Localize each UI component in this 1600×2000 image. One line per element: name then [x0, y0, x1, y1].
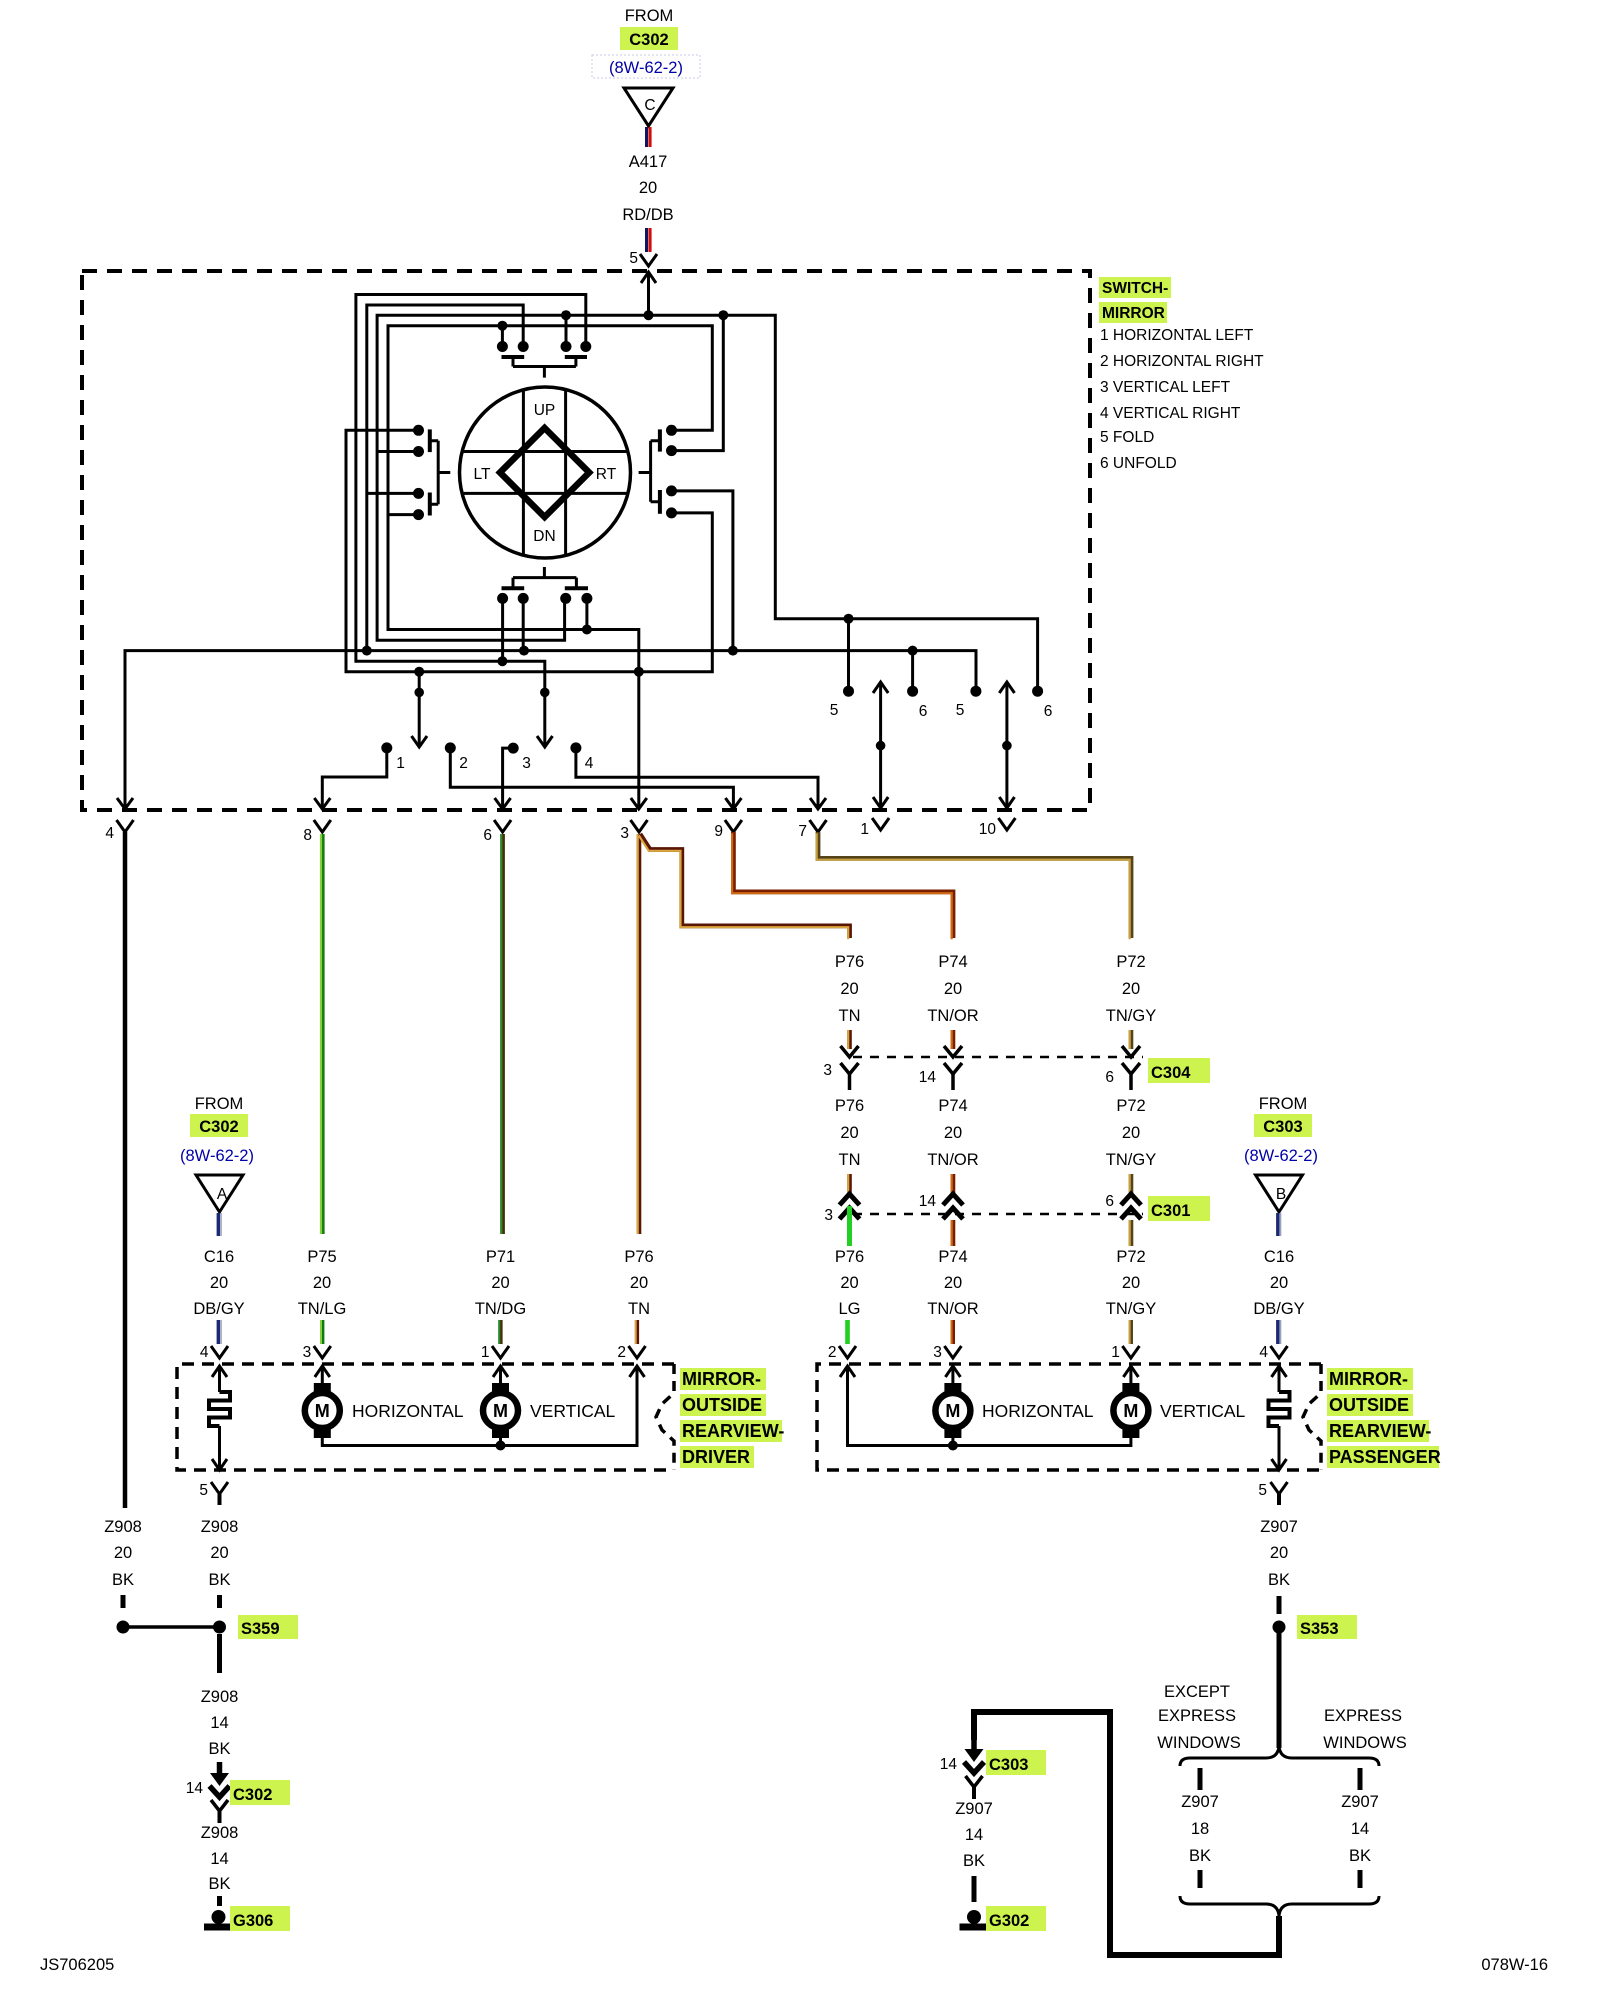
switch output contact 4 dot: [570, 742, 581, 753]
svg-text:4: 4: [105, 825, 114, 842]
svg-text:TN/OR: TN/OR: [927, 1300, 978, 1318]
C304 dashed connector line: [853, 1056, 1143, 1059]
wire nest: right contact d1 / v388 / pin3 run: [388, 326, 712, 808]
wire top contact 1 stub: [501, 326, 504, 347]
wire stub above ground G306: [217, 1896, 222, 1906]
pin 3 connector chevron (mirror box at x=322.3): [314, 1346, 331, 1358]
connector C304 halves at P76: [841, 1046, 859, 1090]
passenger pin 2 entry arrow and common bus: [840, 1366, 1131, 1446]
svg-text:5 FOLD: 5 FOLD: [1100, 429, 1154, 446]
svg-text:BK: BK: [208, 1571, 230, 1589]
wire P74 segment below C301: [952, 1220, 953, 1246]
wire horizontal motor drop to bus (passenger): [951, 1438, 954, 1446]
svg-text:3: 3: [303, 1344, 312, 1361]
connector C304 halves at P74: [944, 1046, 962, 1090]
splice dot left: [117, 1621, 130, 1634]
svg-text:TN/GY: TN/GY: [1106, 1300, 1156, 1318]
label OUTSIDE (passenger): [1327, 1394, 1413, 1416]
wire P76 LG segment below C301: [847, 1206, 852, 1246]
svg-text:Z907: Z907: [1260, 1518, 1298, 1536]
ground G306 symbol: [204, 1910, 233, 1927]
switch top contact assembly dots: [497, 341, 591, 352]
label MIRROR (green highlight): [1099, 302, 1167, 323]
wire A417 RD/DB upper stub: [647, 127, 651, 147]
pin 1 connector chevron (mirror box at x=1130.9): [1122, 1346, 1139, 1358]
pin 3 connector chevron (mirror box at x=952.9): [944, 1346, 961, 1358]
switch right movable bar upper: [658, 429, 662, 451]
svg-text:TN/LG: TN/LG: [298, 1300, 347, 1318]
wire left contact d4 stub: [388, 513, 419, 516]
merge brace: [1180, 1896, 1379, 1916]
svg-text:TN/OR: TN/OR: [927, 1151, 978, 1169]
pin 1 connector chevron (mirror box at x=500.5): [492, 1346, 509, 1358]
svg-text:20: 20: [1122, 1274, 1140, 1292]
svg-text:P72: P72: [1116, 953, 1145, 971]
svg-text:20: 20: [1122, 1124, 1140, 1142]
C301 dashed connector line: [853, 1213, 1143, 1216]
wire right contact d3 drop to pin4 bus: [672, 491, 733, 651]
splice dot S353: [1273, 1621, 1286, 1634]
junction dot (848.5,618.7): [844, 614, 854, 624]
svg-text:BK: BK: [1349, 1847, 1371, 1865]
switch bottom movable bar left: [502, 586, 525, 590]
svg-text:P74: P74: [938, 1248, 967, 1266]
switch left actuator bracket: [430, 441, 451, 505]
svg-text:5: 5: [629, 250, 638, 267]
svg-text:14: 14: [919, 1193, 937, 1210]
svg-text:14: 14: [1351, 1820, 1369, 1838]
svg-text:14: 14: [940, 1756, 958, 1773]
wire Z908 BK from pin 4 down: [123, 832, 128, 1508]
svg-text:(8W-62-2): (8W-62-2): [609, 59, 683, 77]
wire contact 2 to pin 9: [450, 751, 733, 808]
wire contact 1 to pin 8: [322, 751, 387, 808]
wire pin 4 bus y650.6: [125, 651, 976, 808]
svg-text:14: 14: [919, 1069, 937, 1086]
pin 6 connector chevron: [494, 820, 511, 832]
switch left movable bar lower: [428, 493, 432, 516]
pin 4 connector chevron (mirror box at x=219.5): [211, 1346, 228, 1358]
motor M HORIZONTAL (x=322.3): [305, 1383, 340, 1438]
wire bottom contact 4 stub to pin3 line: [585, 598, 588, 629]
svg-text:5: 5: [830, 702, 839, 719]
svg-text:REARVIEW-: REARVIEW-: [1329, 1421, 1431, 1441]
svg-text:MIRROR-: MIRROR-: [1329, 1369, 1408, 1389]
junction dot (419.2,671.7): [414, 667, 424, 677]
svg-text:TN: TN: [628, 1300, 650, 1318]
ground name G306 (green highlight): [230, 1906, 290, 1931]
label REARVIEW- (driver): [680, 1420, 784, 1442]
paddle diamond: [500, 428, 589, 517]
svg-text:14: 14: [210, 1850, 228, 1868]
wire P72 segment above C301: [1130, 1174, 1131, 1196]
fold pole double arrow pin 1: [873, 682, 888, 808]
wire P72 segment below C301: [1130, 1220, 1131, 1246]
wire below S359: [217, 1634, 222, 1673]
svg-text:A: A: [217, 1186, 228, 1203]
connector name C304 (green highlight): [1148, 1058, 1210, 1083]
svg-text:M: M: [315, 1401, 330, 1421]
svg-text:6: 6: [1105, 1193, 1114, 1210]
fold contact dot 5 (left): [843, 686, 854, 697]
splice name S359 (green highlight): [238, 1615, 298, 1639]
svg-text:WINDOWS: WINDOWS: [1323, 1734, 1406, 1752]
svg-text:UP: UP: [534, 402, 556, 419]
junction dot driver bus: [496, 1441, 506, 1451]
svg-text:LT: LT: [474, 466, 491, 483]
svg-text:VERTICAL: VERTICAL: [1160, 1401, 1246, 1421]
svg-text:TN/OR: TN/OR: [927, 1007, 978, 1025]
pole arrow contacts 1/2: [412, 672, 428, 747]
pin 8 connector chevron: [314, 820, 331, 832]
svg-text:4: 4: [585, 755, 594, 772]
svg-text:18: 18: [1191, 1820, 1209, 1838]
svg-text:C302: C302: [199, 1118, 238, 1136]
svg-text:9: 9: [714, 823, 723, 840]
switch left contact assembly dots: [413, 425, 424, 520]
svg-text:PASSENGER: PASSENGER: [1329, 1447, 1441, 1467]
svg-text:3: 3: [933, 1344, 942, 1361]
svg-text:SWITCH-: SWITCH-: [1102, 280, 1168, 297]
svg-text:P76: P76: [835, 1248, 864, 1266]
svg-text:3 VERTICAL LEFT: 3 VERTICAL LEFT: [1100, 379, 1231, 396]
junction dot (502.4,325.7): [497, 321, 507, 331]
pin 3 connector chevron: [631, 820, 648, 832]
junction dot (586.9,629.5): [582, 625, 592, 635]
fold contact dot 6 (left): [907, 686, 918, 697]
wire stub except-express branch: [1198, 1768, 1203, 1790]
junction dot (524,650.6): [519, 646, 529, 656]
svg-text:Z908: Z908: [104, 1518, 142, 1536]
wire P76 segment above C301: [848, 1174, 849, 1196]
svg-text:VERTICAL: VERTICAL: [530, 1401, 616, 1421]
svg-text:4: 4: [1259, 1344, 1268, 1361]
wire P74 segment above C301: [952, 1174, 953, 1196]
junction dot (649.1,315.2) pin5 feed: [644, 310, 654, 320]
svg-text:C: C: [644, 97, 655, 114]
wire C16 DB/GY stub below triangle B: [1278, 1213, 1281, 1236]
svg-text:2: 2: [459, 755, 468, 772]
svg-text:OUTSIDE: OUTSIDE: [682, 1395, 762, 1415]
wire breaker to pin 5 exit (driver): [212, 1426, 227, 1470]
svg-text:20: 20: [840, 980, 858, 998]
wire stub into splice S359 (left): [121, 1595, 126, 1608]
svg-text:Z907: Z907: [1181, 1793, 1219, 1811]
svg-text:RT: RT: [596, 466, 617, 483]
connector C303 inline symbol: [964, 1738, 984, 1799]
wire left contact d3 stub: [367, 492, 419, 495]
svg-text:BK: BK: [112, 1571, 134, 1589]
svg-text:M: M: [945, 1401, 960, 1421]
svg-text:P72: P72: [1116, 1097, 1145, 1115]
svg-text:TN/GY: TN/GY: [1106, 1151, 1156, 1169]
switch right contact assembly dots: [666, 425, 677, 519]
svg-text:C303: C303: [989, 1756, 1028, 1774]
svg-text:BK: BK: [1189, 1847, 1211, 1865]
wire TN/OR stub to passenger pin 3: [952, 1320, 953, 1344]
wire LG stub to passenger pin 2: [845, 1320, 850, 1344]
svg-text:20: 20: [114, 1544, 132, 1562]
svg-text:C302: C302: [629, 31, 668, 49]
switch top actuator bracket: [513, 357, 576, 378]
svg-text:P76: P76: [624, 1248, 653, 1266]
motor M HORIZONTAL (x=952.9): [935, 1383, 970, 1438]
paddle chord horizontal upper: [463, 450, 626, 453]
svg-text:TN/GY: TN/GY: [1106, 1007, 1156, 1025]
splice S359 link wire: [123, 1625, 220, 1629]
svg-text:3: 3: [522, 755, 531, 772]
svg-text:4 VERTICAL RIGHT: 4 VERTICAL RIGHT: [1100, 405, 1241, 422]
wire stub express branch: [1358, 1768, 1363, 1790]
svg-text:DN: DN: [533, 528, 555, 545]
pin 9 connector chevron: [725, 820, 742, 832]
svg-text:6 UNFOLD: 6 UNFOLD: [1100, 455, 1177, 472]
switch top movable bar left: [502, 355, 525, 359]
svg-text:Z907: Z907: [1341, 1793, 1379, 1811]
svg-text:C301: C301: [1151, 1202, 1190, 1220]
svg-text:2: 2: [828, 1344, 837, 1361]
junction dot (566,315.2): [561, 310, 571, 320]
ground name G302 (green highlight): [986, 1906, 1046, 1931]
wire feed line y315 to big right vertical and fold bus: [566, 315, 1038, 691]
svg-text:BK: BK: [208, 1875, 230, 1893]
junction dot (723.3,315.2): [718, 310, 728, 320]
svg-text:EXPRESS: EXPRESS: [1158, 1707, 1236, 1725]
svg-text:20: 20: [1270, 1274, 1288, 1292]
wire A417 RD/DB lower stub: [647, 228, 651, 252]
mirror passenger dashed brace edge: [1303, 1364, 1321, 1470]
switch output contact 2 dot: [445, 742, 456, 753]
label DRIVER (driver): [680, 1446, 754, 1468]
connector name C302 (top, green highlight): [620, 27, 678, 50]
svg-text:P74: P74: [938, 953, 967, 971]
svg-text:Z908: Z908: [201, 1688, 239, 1706]
svg-text:P74: P74: [938, 1097, 967, 1115]
svg-text:C16: C16: [204, 1248, 234, 1266]
wire vertical motor drop to bus (driver): [499, 1438, 502, 1446]
svg-text:S359: S359: [241, 1620, 280, 1638]
switch bottom movable bar right: [565, 586, 588, 590]
wire fold contact drop x912.6: [911, 651, 914, 692]
svg-text:P72: P72: [1116, 1248, 1145, 1266]
split brace: [1180, 1746, 1379, 1766]
svg-text:20: 20: [639, 179, 657, 197]
svg-text:C16: C16: [1264, 1248, 1294, 1266]
svg-text:20: 20: [630, 1274, 648, 1292]
svg-text:20: 20: [944, 980, 962, 998]
svg-text:3: 3: [620, 825, 629, 842]
svg-text:20: 20: [491, 1274, 509, 1292]
junction dot (732.9,650.6): [728, 646, 738, 656]
wire stub into splice S353: [1277, 1596, 1282, 1614]
svg-text:BK: BK: [963, 1852, 985, 1870]
connector C301 chevrons at P72: [1121, 1194, 1141, 1219]
fold contact dot 5 (right): [970, 686, 981, 697]
svg-text:TN/DG: TN/DG: [475, 1300, 526, 1318]
svg-text:5: 5: [199, 1482, 208, 1499]
pin 5 connector chevron: [640, 254, 657, 266]
pole arrow contacts 3/4: [537, 688, 553, 747]
svg-text:C302: C302: [233, 1786, 272, 1804]
svg-text:1: 1: [1111, 1344, 1120, 1361]
svg-text:2 HORIZONTAL RIGHT: 2 HORIZONTAL RIGHT: [1100, 353, 1264, 370]
wire left contact d2 stub: [377, 450, 418, 453]
pin 7 connector chevron: [810, 820, 827, 832]
motor M VERTICAL (x=500.5): [483, 1383, 518, 1438]
svg-text:4: 4: [200, 1344, 209, 1361]
junction dot (912.6,650.6): [908, 646, 918, 656]
connector name C303 (passenger, green highlight): [1254, 1114, 1312, 1137]
svg-text:M: M: [1123, 1401, 1138, 1421]
svg-text:TN: TN: [839, 1151, 861, 1169]
svg-text:Z907: Z907: [955, 1800, 993, 1818]
wire breaker to pin 5 exit (passenger): [1272, 1426, 1287, 1470]
svg-text:6: 6: [483, 827, 492, 844]
off-page connector triangle B: [1256, 1175, 1303, 1212]
label MIRROR- (passenger, green highlight): [1327, 1368, 1413, 1390]
mirror driver dashed box: [177, 1364, 674, 1470]
pin 2 connector chevron (mirror box at x=637): [629, 1346, 646, 1358]
driver pin 3 entry arrow: [315, 1366, 330, 1383]
wire TN/DG stub to driver pin 1: [499, 1320, 500, 1344]
pin 4 connector chevron (mirror box at x=1279): [1271, 1346, 1288, 1358]
switch output contact 3 dot: [508, 743, 519, 754]
wire P72 segment above C304: [1130, 1030, 1131, 1049]
switch bottom actuator bracket: [513, 567, 576, 588]
driver pin 4 entry arrow: [212, 1366, 227, 1392]
svg-text:JS706205: JS706205: [40, 1956, 114, 1974]
pin exit arrowheads at box edge: [117, 798, 826, 809]
junction dot passenger bus: [948, 1441, 958, 1451]
wire stub below right branch: [1358, 1870, 1363, 1888]
svg-text:5: 5: [956, 702, 965, 719]
svg-text:10: 10: [979, 821, 997, 838]
wire P76 TN from pin 3 down (driver vertical): [638, 834, 639, 1234]
svg-text:WINDOWS: WINDOWS: [1157, 1734, 1240, 1752]
svg-text:HORIZONTAL: HORIZONTAL: [982, 1401, 1094, 1421]
driver pin 1 entry arrow: [493, 1366, 508, 1383]
fold contact dot 6 (right): [1032, 686, 1043, 697]
wire bottom contact 1 stub: [501, 598, 504, 661]
svg-text:1: 1: [860, 821, 869, 838]
paddle chord vertical right: [564, 390, 567, 554]
passenger pin 1 entry arrow: [1123, 1366, 1138, 1383]
wire P75 TN/LG from pin 8 down: [321, 834, 322, 1234]
label OUTSIDE (driver): [680, 1394, 766, 1416]
connector C301 chevrons at P74: [943, 1194, 963, 1219]
switch bottom contact assembly dots: [497, 593, 592, 604]
svg-text:DRIVER: DRIVER: [682, 1447, 750, 1467]
svg-text:REARVIEW-: REARVIEW-: [682, 1421, 784, 1441]
svg-text:C303: C303: [1263, 1118, 1302, 1136]
pin 5 connector (passenger mirror): [1271, 1482, 1288, 1505]
driver pin 2 entry arrow and common bus: [322, 1366, 644, 1446]
svg-text:P71: P71: [486, 1248, 515, 1266]
svg-text:20: 20: [840, 1274, 858, 1292]
svg-text:20: 20: [210, 1544, 228, 1562]
svg-text:P75: P75: [307, 1248, 336, 1266]
reference (8W-62-2): [592, 55, 700, 78]
svg-text:20: 20: [210, 1274, 228, 1292]
svg-text:6: 6: [1044, 703, 1053, 720]
wire contact 4 to pin 7: [576, 751, 818, 808]
motor M VERTICAL (x=1130.9): [1113, 1383, 1148, 1438]
label MIRROR- (driver, green highlight): [680, 1368, 766, 1390]
svg-text:G306: G306: [233, 1912, 273, 1930]
svg-text:HORIZONTAL: HORIZONTAL: [352, 1401, 464, 1421]
label PASSENGER (passenger): [1327, 1446, 1441, 1468]
junction dot (366.8,650.6): [362, 646, 372, 656]
svg-text:20: 20: [1122, 980, 1140, 998]
svg-text:Z908: Z908: [201, 1824, 239, 1842]
connector C304 halves at P72: [1122, 1046, 1140, 1090]
svg-text:S353: S353: [1300, 1620, 1339, 1638]
off-page connector triangle C: [624, 88, 673, 126]
label REARVIEW- (passenger): [1327, 1420, 1431, 1442]
svg-text:8: 8: [303, 827, 312, 844]
svg-text:6: 6: [919, 703, 928, 720]
mirror passenger dashed box: [817, 1364, 1321, 1470]
connector name C302 (driver, green highlight): [190, 1114, 248, 1137]
paddle chord horizontal lower: [464, 492, 627, 495]
wire nest: top contact 2 branch (v366.8): [367, 305, 523, 651]
wire TN/LG stub to driver pin 3: [321, 1320, 322, 1344]
svg-text:FROM: FROM: [1259, 1095, 1308, 1113]
pin 5 connector (driver mirror): [211, 1482, 228, 1505]
connector name C302 (green highlight): [230, 1780, 290, 1805]
svg-text:BK: BK: [208, 1740, 230, 1758]
svg-text:B: B: [1276, 1186, 1286, 1203]
svg-text:TN: TN: [839, 1007, 861, 1025]
splice name S353 (green highlight): [1297, 1615, 1357, 1639]
svg-text:(8W-62-2): (8W-62-2): [1244, 1147, 1318, 1165]
wire C16 DB/GY stub below triangle A: [218, 1213, 221, 1236]
wire nest: top contact 4 to outer loop (v355.9) down to pole 3/4 line: [356, 295, 586, 693]
label SWITCH- (green highlight): [1099, 277, 1171, 298]
svg-text:2: 2: [617, 1344, 626, 1361]
svg-text:P76: P76: [835, 953, 864, 971]
wire left contact d1 / v346 / y671.7 / right contact d4 loop: [346, 430, 712, 671]
wire stub below left branch: [1198, 1870, 1203, 1888]
svg-text:C304: C304: [1151, 1064, 1191, 1082]
wire stub above ground G302: [972, 1876, 977, 1902]
svg-text:1: 1: [481, 1344, 490, 1361]
svg-text:M: M: [493, 1401, 508, 1421]
circuit breaker (driver mirror): [209, 1392, 230, 1426]
svg-text:FROM: FROM: [195, 1095, 244, 1113]
pin 10 connector chevron: [998, 818, 1015, 830]
passenger pin 3 entry arrow: [945, 1366, 960, 1383]
ground G302 symbol: [960, 1910, 989, 1927]
connector C302 inline symbol: [210, 1762, 230, 1823]
paddle chord vertical left: [522, 390, 525, 555]
wire contact 3 to pin 6: [503, 748, 514, 808]
svg-text:3: 3: [823, 1062, 832, 1079]
wire pin5 feed into switch with up arrow: [641, 272, 656, 315]
pin 2 connector chevron (mirror box at x=847.5): [839, 1346, 856, 1358]
svg-text:DB/GY: DB/GY: [193, 1300, 244, 1318]
wire P76 TN branch from pin 3 to passenger column: [639, 834, 850, 939]
switch right actuator bracket: [639, 441, 660, 502]
svg-text:5: 5: [1258, 1482, 1267, 1499]
wire P74 segment above C304: [952, 1030, 953, 1049]
fold pole double arrow pin 10: [999, 682, 1014, 808]
svg-text:P76: P76: [835, 1097, 864, 1115]
svg-text:1 HORIZONTAL LEFT: 1 HORIZONTAL LEFT: [1100, 327, 1254, 344]
connector C301 chevrons at P76: [840, 1194, 860, 1219]
wire merged ground run to C303: [974, 1712, 1279, 1955]
svg-text:MIRROR-: MIRROR-: [682, 1369, 761, 1389]
